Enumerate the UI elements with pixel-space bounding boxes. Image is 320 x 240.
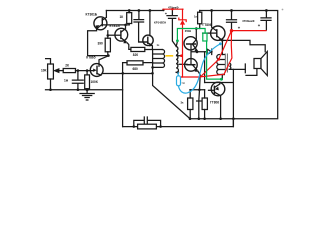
svg-text:1м: 1м [64,78,69,82]
svg-text:10К: 10К [41,68,47,72]
svg-text:390: 390 [98,42,104,46]
svg-text:350В: 350В [185,29,191,33]
svg-text:ГТ806: ГТ806 [210,101,219,105]
svg-text:+: + [258,23,261,28]
svg-text:КТ865: КТ865 [86,55,96,59]
svg-text:1К: 1К [120,15,124,19]
svg-text:КТ815Г: КТ815Г [110,24,121,28]
svg-text:+: + [238,26,241,31]
svg-text:3к: 3к [181,101,185,105]
svg-text:2К: 2К [65,63,69,67]
svg-text:КТ361Б: КТ361Б [86,12,98,16]
svg-text:100К: 100К [91,80,98,84]
svg-text:470мкФ: 470мкФ [168,5,179,9]
svg-text:КР142ЕН: КР142ЕН [154,20,166,24]
svg-text:680: 680 [133,67,139,71]
svg-text:820: 820 [133,53,139,57]
svg-text:ткр: ткр [182,83,186,85]
svg-text:4700мкФ: 4700мкФ [242,19,255,23]
svg-text:ГТ806: ГТ806 [203,23,212,27]
svg-text:1з: 1з [157,43,160,47]
